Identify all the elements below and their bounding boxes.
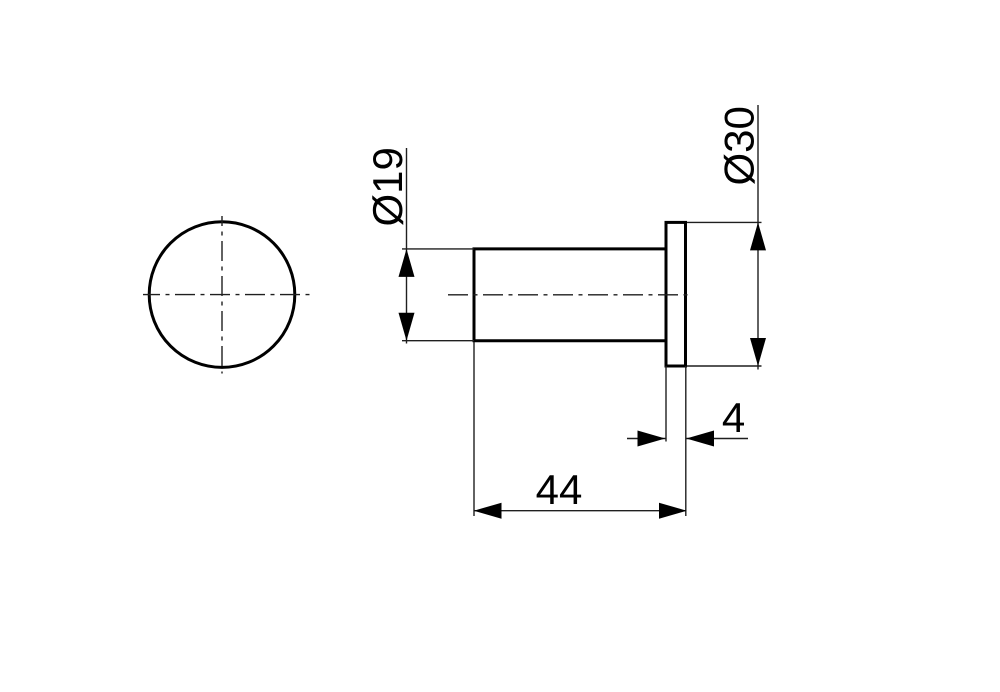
dimension 4: right arrowhead	[686, 431, 714, 447]
side view body (cylinder Ø19)	[474, 249, 666, 341]
dimension Ø19: upper arrowhead	[399, 249, 415, 277]
dimension 44: left extension line	[473, 342, 475, 516]
svg-text:4: 4	[722, 394, 745, 441]
dimension Ø19: top extension line	[402, 248, 474, 250]
dimension 4: left extension line	[665, 366, 667, 442]
front view horizontal centerline	[143, 294, 312, 296]
front view vertical centerline	[221, 216, 223, 374]
dimension Ø19: lower arrowhead	[399, 313, 415, 341]
dimension 4: right extension line (shared with 44)	[685, 366, 687, 516]
dimension 4: left lead line	[627, 438, 666, 440]
dimension 4: left arrowhead	[638, 431, 666, 447]
svg-text:Ø19: Ø19	[364, 147, 411, 226]
front view circle (flange Ø30)	[149, 222, 295, 368]
side view horizontal centerline	[448, 294, 691, 296]
dimension Ø19: bottom extension line	[402, 340, 474, 342]
dimension 4: right lead line	[686, 438, 748, 440]
dimension Ø30: upper arrowhead	[750, 222, 766, 250]
dimension Ø30: top extension line	[687, 221, 762, 223]
dimension Ø19: dimension line	[406, 148, 408, 344]
dimension Ø30: dimension line	[757, 105, 759, 370]
svg-text:44: 44	[536, 466, 583, 513]
side view flange plate	[666, 222, 686, 366]
dimension Ø30: lower arrowhead	[750, 338, 766, 366]
dimension 44: right arrowhead	[659, 503, 687, 519]
svg-text:Ø30: Ø30	[715, 106, 762, 185]
dimension 44: dimension line	[474, 510, 686, 512]
dimension Ø30: bottom extension line	[687, 365, 762, 367]
dimension 44: left arrowhead	[474, 503, 502, 519]
